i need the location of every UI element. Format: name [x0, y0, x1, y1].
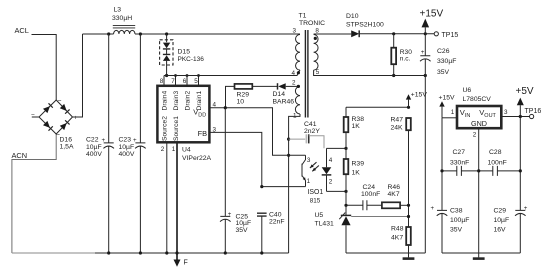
wire +5V column: [519, 117, 521, 254]
svg-text:R46: R46: [388, 184, 401, 191]
svg-text:1: 1: [451, 109, 455, 116]
svg-text:100nF: 100nF: [361, 191, 380, 198]
ground: [403, 253, 415, 259]
junction: [139, 32, 142, 35]
svg-text:C40: C40: [269, 212, 282, 219]
wire: [359, 33, 434, 35]
svg-text:35V: 35V: [450, 227, 463, 234]
shunt regulator U5 TL431: [315, 212, 409, 253]
junction: [224, 106, 227, 109]
svg-text:1,5A: 1,5A: [60, 144, 74, 151]
svg-text:DD: DD: [198, 113, 206, 119]
svg-text:2n2Y: 2n2Y: [304, 128, 320, 135]
resistor R39: [344, 159, 364, 215]
wire: [12, 134, 56, 253]
svg-text:+: +: [431, 205, 435, 212]
svg-text:22nF: 22nF: [269, 219, 285, 226]
svg-text:n.c.: n.c.: [400, 56, 411, 63]
capacitor C26: [420, 34, 456, 253]
wire pin8 to D10: [314, 33, 352, 35]
junction: [519, 115, 522, 118]
transformer T1: [292, 13, 326, 120]
capacitor C27: [442, 149, 469, 176]
svg-text:4: 4: [329, 157, 333, 164]
svg-text:6: 6: [183, 78, 187, 85]
svg-text:D15: D15: [178, 49, 191, 56]
svg-text:T1: T1: [299, 13, 307, 20]
net +15V small: [439, 95, 456, 118]
LED inside ISO1: [326, 148, 328, 167]
svg-text:2: 2: [329, 178, 333, 185]
junction: [424, 32, 427, 35]
svg-text:+: +: [524, 205, 528, 212]
test point TP15: [434, 32, 458, 39]
svg-text:D16: D16: [60, 137, 73, 144]
net +15V: [420, 9, 444, 34]
svg-text:330µH: 330µH: [112, 15, 132, 22]
wire pin2: [478, 128, 480, 253]
wire pin3: [501, 116, 529, 118]
svg-text:3: 3: [293, 28, 297, 35]
svg-text:−: −: [31, 112, 35, 119]
svg-text:Source1: Source1: [173, 116, 180, 141]
wire: [327, 190, 347, 192]
svg-text:330µF: 330µF: [437, 58, 456, 65]
svg-text:C29: C29: [494, 208, 507, 215]
secondary winding: [314, 35, 318, 71]
svg-text:10µF: 10µF: [119, 144, 135, 151]
svg-text:L7805CV: L7805CV: [463, 96, 492, 103]
wire DC bus: [83, 33, 114, 35]
primary winding: [296, 35, 300, 71]
wire: [135, 33, 300, 35]
svg-text:D10: D10: [346, 13, 359, 20]
bridge rectifier D16: [31, 98, 78, 151]
svg-text:+15V: +15V: [411, 91, 428, 98]
junction: [260, 251, 263, 254]
svg-text:ACN: ACN: [12, 151, 28, 160]
transil D15: [160, 34, 205, 76]
junction: [260, 185, 263, 188]
svg-text:35V: 35V: [437, 69, 450, 76]
node ACL: [15, 26, 29, 35]
wire pin1: [442, 117, 457, 119]
diode D10: [346, 13, 384, 37]
svg-text:16V: 16V: [494, 227, 507, 234]
svg-text:+5V: +5V: [516, 86, 534, 97]
svg-text:VIPer22A: VIPer22A: [182, 155, 212, 162]
svg-text:PKC-136: PKC-136: [178, 56, 205, 63]
junction: [392, 74, 395, 77]
junction: [344, 204, 347, 207]
svg-text:IN: IN: [465, 113, 471, 119]
svg-text:3: 3: [504, 109, 508, 116]
svg-text:+: +: [228, 211, 232, 218]
svg-text:3: 3: [307, 157, 311, 164]
wire +15V column: [441, 118, 443, 253]
junction: [440, 169, 443, 172]
regulator U6 L7805CV: [451, 87, 508, 138]
wire secondary ground rail: [346, 252, 425, 254]
net +5V: [516, 86, 534, 117]
svg-text:L3: L3: [114, 7, 122, 14]
svg-text:TP15: TP15: [442, 32, 459, 39]
svg-text:4K7: 4K7: [391, 235, 403, 242]
wire VDD net: [209, 108, 305, 156]
svg-text:GND: GND: [471, 119, 487, 128]
resistor R47: [391, 117, 411, 228]
svg-text:10µF: 10µF: [86, 144, 102, 151]
wire: [32, 35, 57, 101]
junction: [175, 251, 178, 254]
svg-text:330nF: 330nF: [450, 159, 469, 166]
test point TP16: [525, 108, 542, 119]
wire: [327, 147, 347, 149]
svg-text:5: 5: [316, 69, 320, 76]
capacitor C22: [86, 34, 114, 253]
svg-text:R47: R47: [391, 117, 404, 124]
ground F: [174, 260, 188, 267]
wire aux pin1: [289, 114, 300, 253]
capacitor C40: [257, 212, 285, 253]
IC U4 VIPer22A: [157, 74, 216, 162]
svg-text:1: 1: [172, 146, 176, 153]
junction: [477, 169, 480, 172]
wire output ground rail: [442, 252, 520, 254]
svg-text:TP16: TP16: [525, 108, 542, 115]
svg-text:5: 5: [194, 78, 198, 85]
svg-text:TRONIC: TRONIC: [299, 20, 325, 27]
wire: [252, 85, 277, 87]
resistor R46: [382, 184, 409, 209]
resistor R48: [391, 225, 411, 253]
wire: [73, 34, 83, 117]
svg-text:C23: C23: [119, 137, 132, 144]
svg-text:U4: U4: [182, 147, 191, 154]
svg-text:100µF: 100µF: [450, 217, 469, 224]
svg-text:F: F: [184, 260, 188, 267]
svg-text:100nF: 100nF: [488, 159, 507, 166]
svg-text:R29: R29: [237, 92, 250, 99]
diode D14: [273, 83, 299, 105]
svg-text:ACL: ACL: [15, 26, 29, 35]
svg-text:8: 8: [160, 78, 164, 85]
junction: [407, 215, 410, 218]
junction: [287, 138, 290, 141]
svg-text:35V: 35V: [236, 227, 249, 234]
svg-text:R48: R48: [391, 225, 404, 232]
wire secondary return: [314, 70, 426, 75]
svg-text:BAR46: BAR46: [273, 99, 295, 106]
capacitor C24: [346, 184, 382, 211]
resistor R29: [226, 84, 253, 108]
junction: [107, 251, 110, 254]
svg-text:+: +: [133, 137, 137, 144]
svg-text:24K: 24K: [391, 124, 404, 131]
svg-text:815: 815: [310, 197, 321, 204]
svg-text:2: 2: [292, 80, 296, 87]
svg-text:FB: FB: [198, 129, 208, 138]
inductor L3: [112, 7, 135, 35]
junction: [165, 32, 168, 35]
junction: [224, 251, 227, 254]
capacitor C29: [494, 205, 528, 234]
capacitor C41: [289, 121, 324, 148]
junction: [165, 251, 168, 254]
svg-text:4: 4: [292, 70, 296, 77]
aux winding: [295, 86, 300, 114]
svg-text:10: 10: [237, 99, 245, 106]
junction: [139, 251, 142, 254]
svg-text:+: +: [421, 49, 425, 56]
junction: [407, 204, 410, 207]
svg-text:Drain2: Drain2: [185, 91, 192, 111]
svg-text:C41: C41: [304, 121, 317, 128]
svg-text:U5: U5: [315, 212, 324, 219]
svg-text:10µF: 10µF: [494, 217, 510, 224]
svg-text:+15V: +15V: [439, 95, 456, 102]
svg-text:R39: R39: [352, 161, 365, 168]
resistor R38: [344, 107, 364, 159]
core: [305, 30, 308, 118]
junction: [287, 154, 290, 157]
svg-text:+: +: [102, 137, 106, 144]
junction: [519, 169, 522, 172]
svg-text:C38: C38: [450, 208, 463, 215]
svg-text:~: ~: [58, 98, 62, 105]
svg-text:D14: D14: [273, 91, 286, 98]
junction: [424, 74, 427, 77]
junction: [344, 190, 347, 193]
svg-text:Drain4: Drain4: [162, 91, 169, 111]
svg-text:C28: C28: [489, 149, 502, 156]
svg-text:1: 1: [307, 178, 311, 185]
svg-text:C26: C26: [437, 48, 450, 55]
svg-text:2: 2: [161, 146, 165, 153]
wire primary ground rail: [12, 252, 95, 254]
svg-text:Drain3: Drain3: [173, 91, 180, 111]
capacitor C28: [461, 149, 520, 176]
ground: [473, 253, 485, 259]
resistor R30: [391, 34, 412, 76]
wire FB net: [209, 132, 305, 186]
wire drain bus: [164, 71, 299, 76]
optocoupler ISO1: [302, 148, 333, 204]
svg-text:2: 2: [473, 131, 477, 138]
wire source pins: [166, 142, 168, 253]
wire to +15 node: [346, 106, 409, 108]
svg-text:1K: 1K: [352, 123, 361, 130]
svg-text:TL431: TL431: [315, 221, 334, 228]
svg-text:1K: 1K: [352, 170, 361, 177]
capacitor C25: [220, 108, 251, 253]
svg-text:8: 8: [315, 28, 319, 35]
svg-text:C22: C22: [86, 137, 99, 144]
net +15V small: [406, 91, 428, 107]
svg-text:400V: 400V: [119, 151, 135, 158]
junction: [392, 32, 395, 35]
svg-text:C24: C24: [363, 184, 376, 191]
svg-text:U6: U6: [463, 87, 472, 94]
capacitor C23: [119, 34, 146, 253]
junction: [107, 32, 110, 35]
junction: [344, 147, 347, 150]
capacitor C38: [431, 205, 470, 234]
svg-text:4K7: 4K7: [388, 191, 400, 198]
svg-text:C27: C27: [453, 149, 466, 156]
svg-text:Source2: Source2: [162, 116, 169, 141]
svg-text:7: 7: [171, 78, 175, 85]
junction: [407, 106, 410, 109]
svg-text:ISO1: ISO1: [308, 189, 324, 196]
svg-text:+15V: +15V: [420, 9, 444, 20]
node ACN: [12, 151, 28, 160]
svg-text:400V: 400V: [86, 151, 102, 158]
svg-text:+: +: [74, 115, 78, 122]
junction: [165, 74, 168, 77]
svg-text:R38: R38: [352, 116, 365, 123]
svg-text:STPS2H100: STPS2H100: [346, 21, 384, 28]
